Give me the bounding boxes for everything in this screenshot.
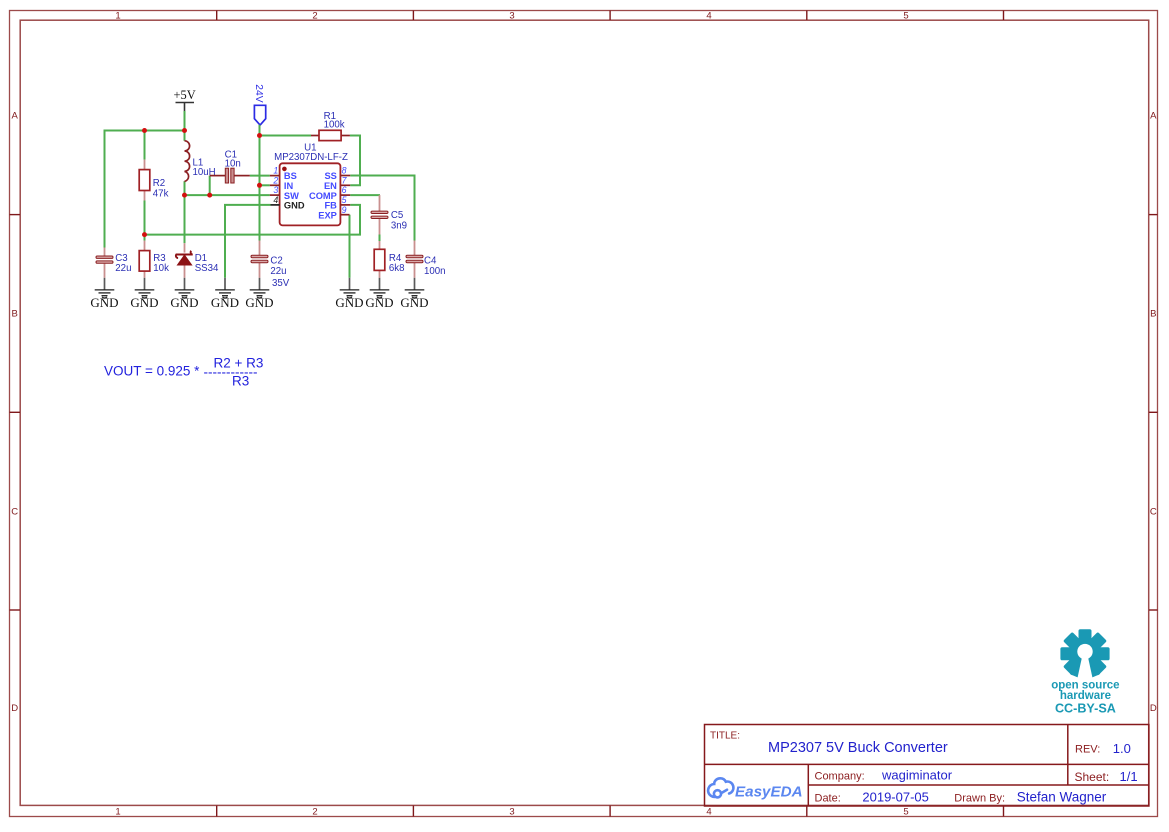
svg-text:2019-07-05: 2019-07-05 [862, 790, 929, 805]
svg-text:EXP: EXP [318, 210, 337, 220]
ground [245, 278, 273, 310]
svg-text:10k: 10k [153, 263, 169, 274]
svg-text:100k: 100k [324, 120, 345, 131]
svg-text:+5V: +5V [174, 88, 196, 102]
svg-text:BS: BS [284, 171, 297, 181]
capacitor C5 [371, 195, 407, 234]
svg-text:D: D [11, 703, 18, 714]
svg-text:GND: GND [365, 295, 393, 310]
resistor R4 [374, 241, 404, 278]
svg-text:D: D [1150, 703, 1157, 714]
svg-text:GND: GND [245, 295, 273, 310]
svg-text:VOUT = 0.925 *: VOUT = 0.925 * [104, 364, 200, 379]
svg-text:GND: GND [170, 295, 198, 310]
svg-text:SW: SW [284, 191, 299, 201]
svg-text:EN: EN [324, 181, 337, 191]
svg-text:1/1: 1/1 [1120, 769, 1138, 784]
power flag +5V [174, 88, 196, 111]
svg-text:GND: GND [284, 201, 305, 211]
svg-text:2: 2 [272, 175, 278, 185]
svg-text:4: 4 [273, 195, 278, 205]
svg-text:FB: FB [324, 201, 337, 211]
svg-text:MP2307 5V Buck Converter: MP2307 5V Buck Converter [768, 740, 948, 756]
wire EXP to GND [349, 215, 351, 278]
inductor L1 [185, 141, 216, 182]
svg-text:IN: IN [284, 181, 294, 191]
svg-text:3: 3 [273, 185, 278, 195]
EasyEDA logo [708, 778, 802, 800]
ground [211, 278, 239, 310]
capacitor C1 [210, 150, 250, 183]
svg-text:MP2307DN-LF-Z: MP2307DN-LF-Z [274, 152, 348, 163]
svg-text:COMP: COMP [309, 191, 337, 201]
wire FB feedback [145, 205, 361, 235]
title block [705, 725, 1149, 807]
ground [400, 278, 428, 310]
svg-text:Date:: Date: [815, 792, 841, 804]
svg-text:2: 2 [312, 10, 317, 21]
wire SS to C4 [350, 176, 414, 241]
svg-text:Sheet:: Sheet: [1075, 770, 1110, 784]
wire 24V input [260, 125, 312, 241]
svg-text:1: 1 [273, 166, 278, 176]
ground [335, 278, 363, 310]
junction FB node at R2/R3 [142, 232, 147, 237]
svg-text:47k: 47k [153, 189, 169, 200]
svg-text:GND: GND [335, 295, 363, 310]
junction SW node at C1 branch [207, 193, 212, 198]
svg-text:22u: 22u [115, 263, 131, 274]
svg-text:5: 5 [903, 806, 908, 817]
diode D1 SS34 [176, 243, 219, 278]
svg-text:1: 1 [115, 10, 120, 21]
svg-text:hardware: hardware [1060, 690, 1111, 702]
svg-text:3n9: 3n9 [391, 220, 407, 231]
svg-text:C2: C2 [270, 256, 282, 267]
svg-text:35V: 35V [272, 278, 290, 289]
svg-text:CC-BY-SA: CC-BY-SA [1055, 702, 1116, 716]
OSHW logo [1051, 629, 1119, 715]
svg-text:3: 3 [509, 10, 514, 21]
svg-text:6: 6 [342, 185, 347, 195]
wire R2 bottom / FB node [144, 201, 146, 241]
U1 pin stubs left [270, 176, 280, 205]
svg-text:A: A [1150, 111, 1157, 122]
svg-text:2: 2 [312, 806, 317, 817]
wire +5V top rail [105, 111, 185, 248]
junction +5V rail at L1 [182, 128, 187, 133]
svg-text:Drawn By:: Drawn By: [954, 792, 1005, 804]
svg-text:24V: 24V [253, 84, 264, 102]
svg-text:4: 4 [706, 10, 711, 21]
svg-text:B: B [12, 309, 18, 320]
junction +5V rail at R2 [142, 128, 147, 133]
resistor R2 [139, 160, 168, 201]
ground [365, 278, 393, 310]
wire COMP to C5 [350, 194, 380, 196]
U1 pin stubs right [340, 176, 350, 215]
svg-text:GND: GND [90, 295, 118, 310]
junction 24V at IN pin [257, 183, 262, 188]
junction 24V at R1 [257, 133, 262, 138]
resistor R3 [139, 241, 169, 278]
wire R1 to EN [350, 136, 360, 186]
note VOUT formula [104, 356, 263, 389]
ground [130, 278, 158, 310]
svg-text:REV:: REV: [1075, 744, 1100, 756]
svg-text:SS34: SS34 [195, 263, 219, 274]
capacitor C3 [96, 248, 131, 278]
svg-text:EasyEDA: EasyEDA [735, 784, 803, 801]
junction SW node at L1/D1 [182, 193, 187, 198]
wire IC GND pin4 [225, 205, 271, 278]
netport 24V [253, 84, 266, 125]
svg-text:6k8: 6k8 [389, 263, 405, 274]
svg-text:Company:: Company: [815, 771, 865, 783]
svg-text:C5: C5 [391, 210, 403, 221]
svg-text:5: 5 [342, 195, 347, 205]
svg-text:C: C [1150, 507, 1157, 518]
svg-text:R3: R3 [232, 374, 249, 389]
svg-text:9: 9 [342, 205, 347, 215]
svg-text:C: C [11, 507, 18, 518]
svg-text:3: 3 [509, 806, 514, 817]
U1 pin names [284, 171, 337, 220]
svg-text:Stefan Wagner: Stefan Wagner [1017, 790, 1107, 805]
svg-text:5: 5 [903, 10, 908, 21]
resistor R1 [311, 111, 350, 141]
ground [170, 278, 198, 310]
ground [90, 278, 118, 310]
svg-text:TITLE:: TITLE: [710, 731, 740, 742]
svg-text:10n: 10n [225, 158, 241, 169]
svg-text:GND: GND [400, 295, 428, 310]
svg-text:C4: C4 [424, 256, 437, 267]
wire BS to C1 [250, 175, 270, 177]
svg-text:R2: R2 [153, 178, 165, 189]
U1 pin numbers [272, 166, 347, 215]
svg-text:1.0: 1.0 [1113, 741, 1131, 756]
svg-text:GND: GND [211, 295, 239, 310]
svg-text:4: 4 [706, 806, 711, 817]
svg-text:A: A [12, 111, 19, 122]
svg-text:wagiminator: wagiminator [881, 768, 953, 783]
IC U1 MP2307 [274, 142, 348, 225]
svg-text:B: B [1150, 309, 1156, 320]
capacitor C2 [251, 241, 290, 290]
svg-text:100n: 100n [424, 266, 446, 277]
svg-text:1: 1 [115, 806, 120, 817]
svg-text:------------: ------------ [204, 364, 258, 379]
capacitor C4 [406, 241, 446, 278]
svg-text:SS: SS [324, 171, 336, 181]
svg-text:22u: 22u [270, 266, 286, 277]
svg-text:GND: GND [130, 295, 158, 310]
wire C5 to R4 [379, 235, 381, 242]
svg-text:8: 8 [342, 166, 347, 176]
wire SW node [185, 176, 270, 244]
